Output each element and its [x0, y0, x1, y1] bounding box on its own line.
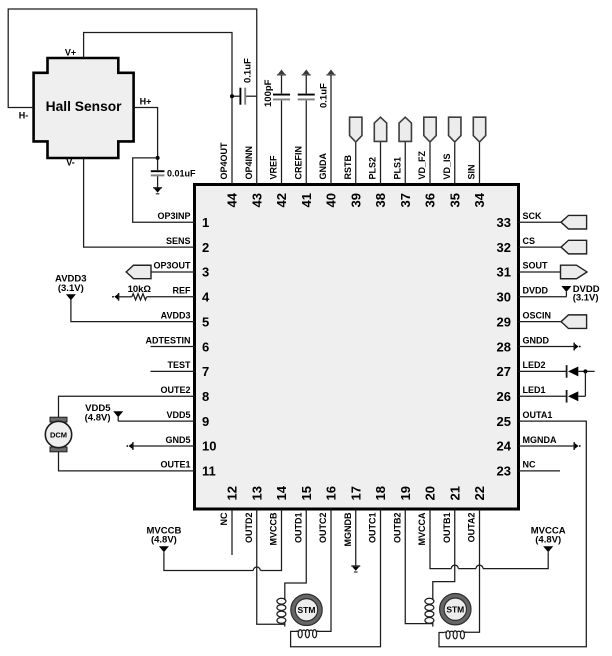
svg-text:Hall Sensor: Hall Sensor — [46, 99, 123, 114]
svg-text:26: 26 — [497, 389, 511, 404]
wire pin 27 LED2 — [519, 370, 567, 372]
svg-text:VDD5: VDD5 — [166, 410, 190, 420]
junction dot node A — [156, 156, 160, 160]
U1 left pin numbers 1-11 — [202, 215, 216, 479]
svg-text:PLS1: PLS1 — [392, 157, 402, 180]
wire V- to SENS (pin 2) — [84, 158, 195, 247]
svg-text:28: 28 — [497, 339, 511, 354]
wire pin 12 NC stub — [231, 509, 233, 555]
capacitor C1 0.1uF between OP4OUT and OP4INN — [232, 95, 240, 97]
ground for C4 — [153, 187, 162, 189]
svg-text:3: 3 — [202, 265, 209, 280]
svg-text:OUTA2: OUTA2 — [467, 513, 477, 543]
wire pin 32 CS — [519, 246, 562, 248]
connector CS — [561, 240, 587, 254]
connector SOUT — [561, 265, 588, 279]
wire pin 9 VDD5 — [118, 420, 194, 422]
wire pin 30 DVDD — [519, 296, 567, 298]
svg-text:18: 18 — [373, 486, 388, 500]
svg-text:42: 42 — [274, 193, 289, 207]
svg-text:VREF: VREF — [269, 155, 279, 180]
wire pin 36 VD_FZ — [429, 142, 431, 185]
svg-text:37: 37 — [398, 193, 413, 207]
connector SIN — [473, 117, 485, 142]
svg-text:23: 23 — [497, 464, 511, 479]
svg-text:VD_FZ: VD_FZ — [417, 150, 427, 179]
wire pin 8 OUTE2 to DCM — [59, 396, 195, 417]
svg-text:DCM: DCM — [50, 430, 67, 439]
svg-text:41: 41 — [299, 193, 314, 207]
connector VD_IS — [449, 117, 461, 142]
svg-text:DVDD: DVDD — [523, 286, 549, 296]
svg-text:24: 24 — [497, 439, 512, 454]
wire pin 24 MGNDA — [519, 445, 575, 447]
svg-text:OUTC1: OUTC1 — [368, 513, 378, 544]
power symbol DVDD — [561, 286, 571, 292]
stepper motor STM A body — [442, 596, 469, 623]
wire pin 33 SCK — [519, 221, 562, 223]
svg-text:39: 39 — [348, 193, 363, 207]
svg-text:35: 35 — [447, 193, 462, 207]
svg-text:4: 4 — [202, 290, 210, 305]
stepper motor STM A winding 2 (horizontal coil) — [446, 631, 450, 639]
svg-text:29: 29 — [497, 314, 511, 329]
svg-text:RSTB: RSTB — [343, 155, 353, 180]
connector SCK — [561, 215, 587, 229]
right arrow terminal GNDD — [573, 343, 575, 351]
svg-text:NC: NC — [219, 512, 229, 525]
svg-text:MVCCA: MVCCA — [417, 512, 427, 545]
svg-text:10: 10 — [202, 439, 216, 454]
svg-text:0.01uF: 0.01uF — [167, 169, 196, 179]
svg-text:19: 19 — [398, 486, 413, 500]
capacitor C2 100pF — [273, 94, 290, 96]
svg-text:OP3INP: OP3INP — [157, 211, 190, 221]
svg-text:30: 30 — [497, 290, 511, 305]
wire hop MVCCA over OUTB1 — [451, 565, 458, 569]
svg-text:H+: H+ — [140, 97, 152, 107]
svg-text:12: 12 — [225, 486, 240, 500]
U1 top pin numbers 44-34 — [225, 192, 488, 207]
wire hop MVCCB over OUTD2 — [253, 567, 260, 571]
svg-text:SIN: SIN — [467, 164, 477, 179]
wire V+ to OP4OUT (pin 44) — [84, 33, 232, 185]
svg-text:OP4OUT: OP4OUT — [219, 142, 229, 180]
wire pin 15 OUTD1 route — [285, 509, 306, 598]
wire pin 37 PLS1 — [404, 142, 406, 185]
svg-text:27: 27 — [497, 364, 511, 379]
svg-text:OUTD1: OUTD1 — [293, 513, 303, 544]
svg-text:VD_IS: VD_IS — [442, 153, 452, 179]
svg-text:SCK: SCK — [523, 211, 543, 221]
svg-text:44: 44 — [225, 192, 240, 207]
stepper motor STM B body — [293, 596, 320, 623]
left arrow terminal GND5 — [132, 442, 134, 450]
svg-text:(4.8V): (4.8V) — [85, 412, 111, 423]
svg-text:LED2: LED2 — [523, 360, 546, 370]
svg-text:AVDD3: AVDD3 — [161, 310, 191, 320]
up arrow terminal CREFIN — [303, 70, 310, 75]
wire H+ to node A — [134, 108, 158, 171]
wire LED2 to LED1 — [584, 371, 586, 396]
svg-text:MGNDA: MGNDA — [523, 435, 557, 445]
up arrow terminal VREF — [278, 70, 285, 75]
svg-text:2: 2 — [202, 240, 209, 255]
svg-text:V+: V+ — [65, 48, 76, 58]
power symbol MVCCA — [543, 546, 553, 552]
resistor R1 10k — [132, 294, 147, 300]
wire pin 10 GND5 — [133, 445, 195, 447]
wire pin 19 OUTB2 route — [405, 509, 433, 624]
svg-text:GND5: GND5 — [165, 435, 190, 445]
svg-text:MGNDB: MGNDB — [343, 512, 353, 546]
power symbol MVCCB — [159, 546, 169, 552]
svg-text:TEST: TEST — [167, 360, 191, 370]
svg-text:PLS2: PLS2 — [368, 157, 378, 180]
svg-text:(3.1V): (3.1V) — [573, 292, 599, 303]
svg-text:11: 11 — [202, 464, 216, 479]
wire pin 41 CREFIN — [305, 75, 307, 94]
svg-text:OUTB2: OUTB2 — [392, 513, 402, 544]
connector PLS2 — [374, 117, 386, 141]
svg-text:(3.1V): (3.1V) — [58, 283, 84, 294]
svg-text:9: 9 — [202, 414, 209, 429]
svg-text:8: 8 — [202, 389, 209, 404]
stepper motor STM A winding 1 (vertical coil) — [425, 598, 434, 604]
wire pin 14 MVCCB route — [164, 509, 282, 571]
wire pin 26 LED1 — [519, 395, 567, 397]
svg-text:40: 40 — [324, 193, 339, 207]
svg-text:21: 21 — [447, 486, 462, 500]
wire pin 38 PLS2 — [380, 142, 382, 185]
wire pin 18 OUTC1 route — [291, 509, 381, 647]
connector OSCIN — [561, 315, 587, 329]
LED D2 — [566, 365, 568, 378]
svg-text:6: 6 — [202, 339, 209, 354]
connector OP3OUT — [126, 265, 151, 278]
svg-text:0.1uF: 0.1uF — [242, 58, 253, 83]
svg-text:GNDD: GNDD — [523, 335, 550, 345]
right arrow terminal MGNDA — [573, 442, 575, 450]
LED D1 — [566, 390, 568, 403]
svg-text:STM: STM — [298, 605, 316, 615]
wire pin 17 MGNDB — [355, 509, 357, 566]
svg-text:20: 20 — [423, 486, 438, 500]
svg-text:15: 15 — [299, 486, 314, 500]
wire pin 35 VD_IS — [454, 142, 456, 185]
svg-text:13: 13 — [249, 486, 264, 500]
power symbol AVDD3 — [66, 294, 76, 300]
svg-text:SOUT: SOUT — [523, 261, 549, 271]
left arrow terminal REF — [118, 293, 120, 301]
U1 bottom pin numbers 12-22 — [225, 485, 488, 500]
stepper motor STM B winding 2 (horizontal coil) — [298, 630, 302, 638]
wire pin 25 OUTA1 route — [439, 421, 586, 647]
junction dot OP4OUT/C1 — [230, 94, 234, 98]
svg-text:OUTE1: OUTE1 — [160, 460, 190, 470]
connector PLS1 — [399, 117, 411, 141]
svg-text:H-: H- — [19, 110, 29, 120]
wire pin 40 GNDA — [330, 75, 332, 185]
svg-text:ADTESTIN: ADTESTIN — [146, 335, 191, 345]
motor DCM brushes — [50, 417, 67, 422]
svg-text:(4.8V): (4.8V) — [151, 535, 177, 546]
svg-text:OP3OUT: OP3OUT — [153, 261, 191, 271]
svg-text:LED1: LED1 — [523, 385, 546, 395]
wire pin 11 OUTE1 from DCM — [59, 452, 195, 471]
svg-text:36: 36 — [423, 193, 438, 207]
svg-text:17: 17 — [348, 486, 363, 500]
svg-text:31: 31 — [497, 265, 511, 280]
svg-text:22: 22 — [472, 486, 487, 500]
wire pin 34 SIN — [479, 142, 481, 185]
svg-text:OP4INN: OP4INN — [244, 146, 254, 180]
svg-text:25: 25 — [497, 414, 511, 429]
svg-text:V-: V- — [66, 158, 75, 168]
wire H- to OP4INN (pin 43) — [8, 9, 257, 185]
wire pin 22 OUTA2 route — [464, 509, 480, 632]
svg-text:1: 1 — [202, 215, 209, 230]
svg-text:OUTE2: OUTE2 — [160, 385, 190, 395]
wire pin 29 OSCIN — [519, 321, 562, 323]
stepper motor STM B winding 1 (vertical coil) — [277, 598, 286, 604]
IC U1 44-pin body — [195, 185, 519, 510]
motor DCM body — [45, 421, 71, 447]
svg-text:38: 38 — [373, 193, 388, 207]
junction dot LED2 — [583, 369, 587, 373]
capacitor C3 0.1uF — [298, 94, 315, 96]
svg-text:GNDA: GNDA — [318, 153, 328, 180]
svg-text:5: 5 — [202, 314, 209, 329]
U1 right pin numbers 33-23 — [497, 215, 512, 479]
svg-text:MVCCB: MVCCB — [269, 512, 279, 545]
ground MGNDB — [351, 565, 360, 567]
svg-text:10kΩ: 10kΩ — [128, 284, 152, 295]
wire hop MVCCA over OUTA2 — [476, 565, 483, 569]
svg-text:14: 14 — [274, 485, 289, 500]
svg-text:100pF: 100pF — [263, 79, 274, 107]
svg-text:CS: CS — [523, 236, 536, 246]
capacitor C4 0.01uF — [151, 170, 165, 172]
svg-text:0.1uF: 0.1uF — [318, 83, 329, 108]
svg-text:STM: STM — [446, 604, 464, 614]
wire pin 7 TEST stub — [151, 370, 195, 372]
svg-text:NC: NC — [523, 460, 536, 470]
svg-text:43: 43 — [249, 193, 264, 207]
svg-text:OUTD2: OUTD2 — [244, 513, 254, 544]
wire node A to OP3INP (pin 1) — [133, 158, 195, 222]
wire pin 20 MVCCA route — [430, 509, 548, 569]
wire pin 42 VREF — [281, 75, 283, 94]
wire pin 3 — [151, 271, 195, 273]
wire pin 16 OUTC2 route — [317, 509, 331, 631]
wire pin 23 NC stub — [519, 470, 561, 472]
wire pin 13 OUTD2 route — [257, 509, 285, 624]
svg-text:16: 16 — [324, 486, 339, 500]
connector VD_FZ — [424, 117, 436, 142]
svg-text:34: 34 — [472, 192, 487, 207]
Hall Sensor HS1 — [34, 58, 134, 158]
svg-text:CREFIN: CREFIN — [293, 146, 303, 180]
svg-text:REF: REF — [173, 286, 192, 296]
wire pin 5 AVDD3 — [71, 300, 195, 322]
connector RSTB — [350, 117, 362, 142]
wire pin 21 OUTB1 route — [433, 509, 455, 598]
svg-text:OSCIN: OSCIN — [523, 310, 552, 320]
power symbol VDD5 — [113, 411, 123, 417]
svg-text:SENS: SENS — [166, 236, 191, 246]
up arrow terminal GNDA — [327, 70, 334, 75]
wire pin 6 ADTESTIN stub — [151, 346, 195, 348]
svg-text:(4.8V): (4.8V) — [535, 535, 561, 546]
svg-text:OUTC2: OUTC2 — [318, 513, 328, 544]
svg-text:OUTA1: OUTA1 — [523, 410, 553, 420]
wire pin 39 RSTB — [355, 142, 357, 185]
wire pin 28 GNDD — [519, 346, 575, 348]
svg-text:OUTB1: OUTB1 — [442, 513, 452, 544]
wire pin 31 SOUT — [519, 271, 561, 273]
wire pin 4 REF — [119, 296, 132, 298]
svg-text:33: 33 — [497, 215, 511, 230]
svg-text:7: 7 — [202, 364, 209, 379]
svg-text:32: 32 — [497, 240, 511, 255]
